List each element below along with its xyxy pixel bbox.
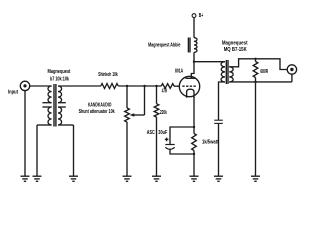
svg-text:KANDKAUDIO: KANDKAUDIO bbox=[88, 103, 112, 109]
svg-text:220k: 220k bbox=[160, 110, 167, 116]
choke L1 coil bbox=[194, 38, 197, 53]
wire B+ to L1 bbox=[193, 18, 195, 38]
svg-text:Magnequest: Magnequest bbox=[222, 41, 248, 47]
wire C1 to bottom node bbox=[170, 149, 194, 154]
wire J1 to T1 primary bbox=[29, 85, 51, 87]
ground G7 bbox=[214, 176, 223, 181]
node RC bottom bbox=[193, 153, 195, 155]
node plate bbox=[193, 61, 195, 63]
T2 secondary bottom lead / output return bbox=[229, 81, 292, 83]
wire T1 to R1 bbox=[58, 85, 101, 87]
svg-text:30uF: 30uF bbox=[158, 130, 167, 136]
resistor R4 1k/5watt bbox=[192, 127, 197, 154]
svg-text:1k/5watt: 1k/5watt bbox=[202, 139, 219, 145]
resistor R1 Shinkoh 10k bbox=[101, 84, 118, 89]
T1 primary tap stubs bbox=[42, 103, 51, 107]
transformer T1 primary winding bbox=[48, 86, 52, 125]
svg-text:ASC: ASC bbox=[147, 130, 155, 136]
svg-text:MQ B7-15K: MQ B7-15K bbox=[224, 47, 247, 53]
svg-text:Input: Input bbox=[8, 89, 18, 95]
svg-text:b7 10k:10k: b7 10k:10k bbox=[50, 76, 69, 82]
input jack J1 bbox=[20, 81, 29, 90]
wire node to ground G8 bbox=[255, 82, 257, 176]
tube U1 801A envelope bbox=[179, 76, 199, 96]
ground G5 bbox=[152, 176, 161, 181]
svg-text:680R: 680R bbox=[260, 69, 268, 75]
B+ terminal bbox=[192, 14, 196, 18]
svg-text:Magnequest: Magnequest bbox=[48, 69, 71, 75]
ground G8 bbox=[251, 176, 260, 181]
U1 filament bbox=[187, 89, 194, 98]
T2 secondary top lead bbox=[229, 59, 287, 70]
ground G1 bbox=[21, 176, 30, 181]
transformer T1 core bbox=[54, 84, 56, 127]
ground G3 bbox=[69, 176, 78, 181]
wire plate node to T2 bbox=[194, 61, 225, 63]
T2 primary bottom lead bbox=[219, 82, 226, 120]
node RC top bbox=[193, 126, 195, 128]
ground G6 bbox=[190, 176, 199, 181]
svg-text:Shunt attenuator 10k: Shunt attenuator 10k bbox=[79, 109, 115, 115]
node 680R bottom bbox=[254, 81, 256, 83]
U1 plate bar bbox=[186, 77, 196, 79]
C1 plus sign bbox=[165, 138, 169, 142]
wire node to ground G6 bbox=[193, 154, 195, 176]
U1 plate lead bbox=[191, 62, 194, 79]
svg-text:Shinkoh 10k: Shinkoh 10k bbox=[98, 72, 118, 78]
potentiometer VR1 bbox=[125, 86, 130, 176]
wire R2 to grid bbox=[174, 85, 180, 87]
node pot top bbox=[126, 85, 128, 87]
wire R1 to R2 bbox=[118, 85, 161, 87]
wire L1 to plate node bbox=[193, 52, 195, 61]
transformer T2 secondary winding bbox=[229, 67, 233, 82]
capacitor C1 plates bbox=[165, 145, 174, 150]
transformer T1 secondary winding bbox=[58, 86, 62, 125]
svg-text:801A: 801A bbox=[175, 69, 183, 75]
resistor R2 47R bbox=[161, 84, 174, 89]
svg-text:B+: B+ bbox=[199, 13, 204, 19]
VR1 wiper arrow bbox=[130, 86, 145, 117]
wire filament to cathode node bbox=[193, 97, 195, 127]
svg-text:47R: 47R bbox=[162, 89, 168, 95]
node 680R top bbox=[254, 58, 256, 60]
ground G4 bbox=[123, 176, 132, 181]
node wiper top bbox=[143, 85, 145, 87]
ground G2 bbox=[33, 176, 42, 181]
T1 primary bottom lead bbox=[37, 125, 52, 176]
choke L1 core bbox=[188, 38, 190, 53]
svg-text:Magnequest Abbie: Magnequest Abbie bbox=[148, 42, 180, 48]
transformer T2 core bbox=[226, 60, 228, 84]
resistor R5 680R bbox=[253, 59, 258, 82]
wire C2 to ground bbox=[218, 123, 220, 176]
capacitor C2 parafeed plates bbox=[214, 120, 223, 123]
U1 grid dashes bbox=[182, 85, 197, 87]
resistor R3 220k bbox=[154, 86, 159, 176]
node R3 top bbox=[155, 85, 157, 87]
T1 secondary tap stubs bbox=[58, 103, 66, 107]
T1 secondary bottom lead bbox=[58, 125, 74, 176]
output jack J2 bbox=[287, 65, 296, 82]
wire J1 to ground bbox=[24, 90, 26, 176]
transformer T2 primary winding bbox=[221, 62, 225, 82]
wire node to C1 bbox=[170, 127, 194, 145]
